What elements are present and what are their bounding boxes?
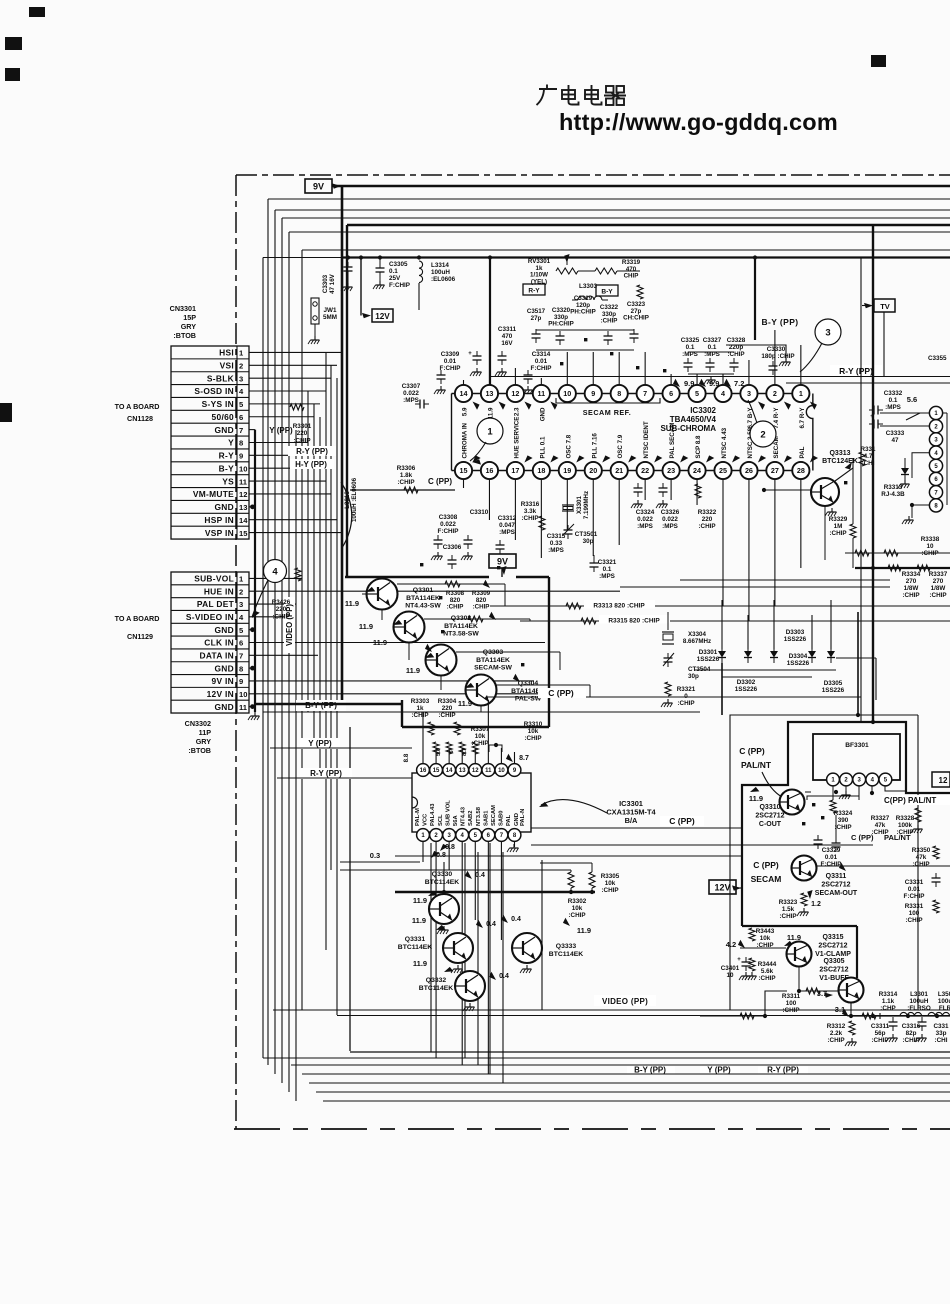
svg-text:30p: 30p: [688, 673, 699, 680]
svg-text:2.2k: 2.2k: [830, 1030, 843, 1037]
svg-text:B-Y (PP): B-Y (PP): [305, 701, 337, 710]
svg-text:R3334: R3334: [902, 571, 921, 578]
svg-text:0.8: 0.8: [445, 844, 455, 851]
svg-text:0.1: 0.1: [603, 566, 612, 573]
svg-text:IC3302: IC3302: [690, 406, 716, 415]
resistor R3426: [295, 568, 301, 581]
svg-text:13: 13: [459, 768, 466, 774]
crystal X3304: [667, 612, 669, 630]
supply box 12V far-right: [932, 772, 950, 787]
svg-text:11: 11: [538, 389, 546, 398]
svg-text:10: 10: [239, 690, 247, 699]
svg-text:10k: 10k: [572, 905, 583, 912]
svg-text:+: +: [737, 957, 741, 963]
svg-text:16V: 16V: [501, 340, 513, 347]
svg-text:VIDEO (PP): VIDEO (PP): [285, 604, 294, 646]
box B thick: [742, 722, 950, 926]
transistor Q3333: [512, 933, 542, 963]
svg-text:VM-MUTE: VM-MUTE: [193, 489, 234, 499]
svg-text:3: 3: [239, 600, 243, 609]
wires CN3301 pin stubs: [249, 351, 343, 353]
svg-text:15: 15: [460, 466, 468, 475]
svg-text:1/8W: 1/8W: [904, 585, 919, 592]
svg-text:R3315 820 :CHIP: R3315 820 :CHIP: [608, 618, 660, 625]
svg-text:100: 100: [909, 910, 920, 917]
bracket SECAM REF: [556, 398, 660, 403]
svg-text:50/60: 50/60: [212, 412, 235, 422]
svg-text:2SC2712: 2SC2712: [821, 882, 850, 889]
transistor Q3331: [443, 933, 473, 963]
svg-text:10: 10: [726, 972, 734, 979]
wire GND vertical (thick): [254, 430, 256, 712]
svg-text:S-YS IN: S-YS IN: [202, 399, 234, 409]
svg-text:CH:CHIP: CH:CHIP: [623, 315, 649, 322]
svg-text:S-VIDEO IN: S-VIDEO IN: [186, 612, 234, 622]
connector CN3302 table: [171, 572, 249, 713]
wires IC3301 top leads: [422, 712, 424, 764]
wire r-y horizontal: [277, 777, 412, 779]
svg-text:2: 2: [760, 429, 765, 440]
svg-text:8.7: 8.7: [462, 748, 468, 756]
svg-text:R3321: R3321: [677, 686, 696, 693]
svg-text:R-Y (PP): R-Y (PP): [839, 366, 873, 376]
svg-text:SCL: SCL: [438, 814, 444, 826]
svg-text:47k: 47k: [916, 854, 927, 861]
svg-text:R3303: R3303: [411, 698, 430, 705]
svg-text:C3401: C3401: [721, 965, 740, 972]
svg-text:C331: C331: [933, 1023, 949, 1030]
svg-text:SECAM-OUT: SECAM-OUT: [815, 890, 858, 897]
svg-text:R3314: R3314: [879, 991, 898, 998]
svg-text:C3314: C3314: [532, 351, 551, 358]
svg-text:C3333: C3333: [886, 430, 905, 437]
wire thick drop bf: [857, 612, 859, 715]
resistor R3321: [665, 682, 671, 696]
svg-text:Y (PP): Y (PP): [707, 1066, 731, 1075]
svg-text:Q3315: Q3315: [822, 934, 843, 941]
svg-text:SAB1: SAB1: [483, 810, 489, 826]
svg-text:0.4: 0.4: [499, 973, 509, 980]
capacitor CT3504: [664, 657, 673, 659]
svg-text:R3313: R3313: [884, 484, 903, 491]
svg-text::MPS: :MPS: [499, 529, 515, 536]
svg-text:7: 7: [239, 426, 243, 435]
svg-text:L3303: L3303: [579, 283, 598, 290]
svg-text:FLR: FLR: [939, 1005, 950, 1012]
svg-text:10: 10: [563, 389, 571, 398]
svg-text:14: 14: [239, 516, 248, 525]
svg-text:15: 15: [239, 529, 248, 538]
svg-text:220: 220: [276, 606, 287, 613]
svg-text:R3301: R3301: [293, 423, 312, 430]
wire right v873 thick: [872, 225, 874, 722]
svg-text:100uH: 100uH: [431, 269, 450, 276]
svg-text::CHIP: :CHIP: [447, 604, 464, 611]
svg-text::CHIP: :CHIP: [827, 1037, 844, 1044]
svg-text:C3324: C3324: [636, 509, 655, 516]
svg-text::CHIP: :CHIP: [758, 975, 775, 982]
svg-text:0.1: 0.1: [389, 268, 398, 275]
svg-text:C3307: C3307: [402, 383, 421, 390]
svg-text:5.9: 5.9: [462, 407, 469, 416]
wire bus bottom b6: [316, 1091, 950, 1093]
svg-text:Q3301: Q3301: [413, 587, 434, 594]
svg-text::CHIP: :CHIP: [829, 530, 846, 537]
border dash-dot top: [236, 174, 950, 176]
svg-text:10k: 10k: [760, 935, 771, 942]
connector CN3301 table: [171, 346, 249, 539]
svg-text:C (PP): C (PP): [851, 833, 874, 842]
svg-text:GND: GND: [514, 813, 520, 826]
svg-text:6: 6: [239, 413, 243, 422]
label R-Y (PP) top: [830, 365, 882, 376]
wire c pp 3301: [531, 827, 742, 829]
wires Q3313: [764, 489, 811, 491]
wire bus left v4: [281, 218, 283, 1083]
svg-text::CHIP: :CHIP: [438, 712, 455, 719]
svg-text:R3329: R3329: [829, 516, 848, 523]
circled 4 pointer: [264, 560, 287, 583]
svg-text:28: 28: [797, 466, 805, 475]
svg-text:0.1: 0.1: [889, 397, 898, 404]
wire bus top 9V (thick): [332, 185, 950, 188]
svg-text:0.022: 0.022: [440, 521, 456, 528]
wire 12V drop: [360, 258, 362, 316]
svg-text:GND: GND: [214, 425, 234, 435]
wire bus left v13: [336, 378, 338, 1015]
svg-text:Q3304: Q3304: [518, 680, 539, 687]
svg-text::CHIP: :CHIP: [397, 479, 414, 486]
svg-text:3: 3: [239, 374, 243, 383]
svg-text:CN3302: CN3302: [185, 719, 211, 728]
svg-text:C (PP): C (PP): [548, 688, 574, 698]
wire y horizontal: [270, 747, 412, 749]
ground below CN3302: [254, 712, 256, 716]
svg-text:Q3332: Q3332: [426, 977, 447, 984]
svg-text:180p :CHIP: 180p :CHIP: [761, 353, 794, 360]
svg-text:C3311: C3311: [498, 326, 517, 333]
svg-text:NT4.43-SW: NT4.43-SW: [405, 603, 441, 610]
diode D3302: [747, 615, 749, 649]
wire r-y pp line: [490, 376, 950, 378]
wedge marks IC3302 pins: [471, 400, 481, 410]
transistor Q3311: [792, 856, 817, 881]
svg-text:F:CHIP: F:CHIP: [821, 861, 842, 868]
svg-text::MPS: :MPS: [885, 404, 901, 411]
svg-text:R3328: R3328: [896, 815, 915, 822]
svg-text:Y: Y: [228, 438, 234, 448]
svg-text:47: 47: [891, 437, 899, 444]
wire y845: [531, 844, 873, 846]
svg-text:PH:CHIP: PH:CHIP: [570, 309, 595, 316]
svg-text:1SS226: 1SS226: [697, 656, 720, 663]
svg-text:BTA114EK: BTA114EK: [406, 595, 440, 602]
wire y1016 left: [700, 1015, 765, 1017]
svg-text:3: 3: [747, 389, 751, 398]
svg-text:11.9: 11.9: [373, 638, 387, 647]
wire bus bottom b3: [291, 1064, 950, 1066]
svg-text:R3305: R3305: [601, 873, 620, 880]
svg-text:F:CHIP: F:CHIP: [440, 365, 461, 372]
svg-text:9: 9: [239, 452, 243, 461]
svg-text:100: 100: [786, 1000, 797, 1007]
svg-text:B/A: B/A: [625, 816, 638, 825]
transistor Q3304: [466, 675, 497, 706]
wire thick y568: [855, 567, 950, 569]
op-amp IC3302 body and pins: [452, 393, 810, 395]
svg-text:D3304: D3304: [789, 653, 808, 660]
svg-text:R3312: R3312: [827, 1023, 846, 1030]
wire bus bottom b2: [263, 1057, 950, 1059]
svg-text:Y (PP): Y (PP): [269, 426, 293, 435]
wire bus bottom video2: [337, 1015, 950, 1017]
svg-text:C3332: C3332: [884, 390, 903, 397]
svg-text:15P: 15P: [183, 313, 196, 322]
svg-text::CHIP: :CHIP: [601, 887, 618, 894]
border dash-dot left: [235, 175, 237, 1129]
wire bus top 4: [282, 217, 950, 219]
diode D3301: [721, 600, 723, 649]
svg-text:R-Y: R-Y: [528, 288, 540, 295]
svg-text:HUE IN: HUE IN: [204, 586, 234, 596]
svg-text:R3350: R3350: [912, 847, 931, 854]
svg-text:C3308: C3308: [439, 514, 458, 521]
svg-text:1/8W: 1/8W: [931, 585, 946, 592]
wire b-y top: [726, 345, 786, 360]
circled 1: [477, 418, 503, 444]
scan blob top-right: [871, 55, 886, 67]
resistor R left: [859, 452, 865, 466]
svg-text:1k: 1k: [416, 705, 424, 712]
svg-text:14: 14: [460, 389, 468, 398]
wire secam out: [816, 863, 950, 865]
svg-text:BF3301: BF3301: [845, 742, 869, 749]
svg-text:0.4: 0.4: [511, 916, 521, 923]
wires IC3301 bottom leads: [422, 841, 424, 862]
svg-text:CN3301: CN3301: [170, 304, 196, 313]
thick frame switch area: [345, 576, 489, 578]
wire bus left v6: [295, 430, 297, 1101]
wire thick v2: [346, 225, 348, 577]
svg-text::CHIP: :CHIP: [471, 740, 488, 747]
svg-text:0.047: 0.047: [499, 522, 515, 529]
svg-text:R3331: R3331: [905, 903, 924, 910]
diode D right: [901, 468, 909, 475]
svg-text:HSP IN: HSP IN: [204, 515, 234, 525]
svg-text:D3302: D3302: [737, 679, 756, 686]
label B-Y (PP) mid: [290, 459, 334, 469]
svg-text::CHIP: :CHIP: [871, 1037, 888, 1044]
wires right column: [880, 412, 929, 414]
svg-text:PAL: PAL: [506, 814, 512, 826]
svg-text:C3327: C3327: [703, 337, 722, 344]
wire 820 line B: [520, 620, 950, 622]
label R-Y (PP) left: [300, 768, 352, 779]
svg-text:220: 220: [442, 705, 453, 712]
capacitor C3305: [376, 267, 385, 269]
svg-text:PAL-M: PAL-M: [415, 808, 421, 826]
svg-text:11: 11: [239, 477, 248, 486]
svg-text:TO A BOARD: TO A BOARD: [115, 614, 160, 623]
svg-text:10: 10: [498, 768, 505, 774]
resistor R3305: [589, 872, 595, 888]
svg-text:11.9: 11.9: [345, 599, 359, 608]
svg-text:270: 270: [906, 578, 917, 585]
resistor R3302: [568, 872, 574, 888]
svg-text:B-Y (PP): B-Y (PP): [761, 317, 798, 327]
svg-text:10k: 10k: [528, 728, 539, 735]
svg-text:NTSC 4.43: NTSC 4.43: [721, 427, 728, 458]
wire right v861: [860, 258, 862, 723]
svg-text:C3326: C3326: [661, 509, 680, 516]
svg-text:13: 13: [485, 389, 493, 398]
svg-text:0.022: 0.022: [637, 516, 653, 523]
svg-text:VSI: VSI: [220, 360, 234, 370]
svg-text:0.01: 0.01: [825, 854, 838, 861]
svg-text:1.2: 1.2: [811, 901, 821, 908]
svg-text:5.6: 5.6: [436, 747, 442, 756]
svg-text:R3323: R3323: [779, 899, 798, 906]
svg-text:HUE SERVICE: HUE SERVICE: [513, 417, 520, 459]
svg-text:Q3313: Q3313: [829, 450, 850, 457]
svg-text::CHIP: :CHIP: [568, 912, 585, 919]
wire bus left v9: [313, 404, 315, 748]
svg-text:1M: 1M: [834, 523, 843, 530]
svg-text:SAB0: SAB0: [499, 811, 505, 826]
wire bus top 8 supply rail: [263, 257, 348, 259]
label Y (PP) bottom: [700, 1067, 740, 1074]
corner joins bottom-left: [262, 1057, 264, 1059]
svg-text:9V IN: 9V IN: [212, 676, 234, 686]
wire bus left v12: [330, 365, 332, 870]
svg-text:CN1129: CN1129: [127, 632, 153, 641]
svg-text:CT3501: CT3501: [575, 531, 598, 538]
svg-text::MPS: :MPS: [637, 523, 653, 530]
svg-text:RJ-4.3B: RJ-4.3B: [881, 491, 905, 498]
svg-text:0.01: 0.01: [444, 358, 457, 365]
svg-text:0.022: 0.022: [662, 516, 678, 523]
svg-text:27p: 27p: [531, 315, 542, 322]
svg-text:TBA4650/V4: TBA4650/V4: [670, 415, 717, 424]
svg-text:GND: GND: [539, 407, 546, 421]
svg-text:C3311: C3311: [871, 1023, 890, 1030]
svg-text:82p: 82p: [906, 1030, 917, 1037]
svg-text:PAL/NT: PAL/NT: [884, 833, 911, 842]
svg-text:9: 9: [591, 389, 595, 398]
svg-text:390: 390: [838, 817, 849, 824]
op-amp right IC pin column: [929, 406, 942, 419]
wires q cluster horiz: [340, 869, 571, 871]
svg-text:GRY: GRY: [196, 737, 212, 746]
junction dots supply rail: [346, 255, 350, 259]
svg-text:R-Y (PP): R-Y (PP): [296, 447, 328, 456]
svg-text:2: 2: [239, 361, 243, 370]
svg-text::MPS: :MPS: [599, 573, 615, 580]
svg-text:470: 470: [502, 333, 513, 340]
svg-text:C3312: C3312: [498, 515, 517, 522]
svg-text:L350: L350: [938, 991, 950, 998]
svg-text::CHIP: :CHIP: [912, 861, 929, 868]
svg-text::CHIP: :CHIP: [473, 604, 490, 611]
scan blob left 3: [0, 403, 12, 422]
wire bus left v5: [288, 232, 290, 1092]
svg-text:R3310: R3310: [524, 721, 543, 728]
svg-text:1.5k: 1.5k: [782, 906, 795, 913]
svg-text:C3305: C3305: [389, 261, 408, 268]
wire bus left v8: [307, 391, 309, 712]
svg-text:0.022: 0.022: [403, 390, 419, 397]
op-amp BF3301 body: [813, 734, 900, 780]
svg-text:SECAM: SECAM: [491, 805, 497, 826]
wires top caps rails: [536, 329, 634, 331]
svg-text:CHIP: CHIP: [624, 273, 639, 280]
wires BF3301 pins: [845, 786, 847, 792]
svg-text:H-Y (PP): H-Y (PP): [295, 460, 327, 469]
svg-text:2SC2712: 2SC2712: [755, 813, 784, 820]
svg-text:CLK IN: CLK IN: [204, 638, 234, 648]
wire q3313 down: [824, 506, 826, 560]
svg-text:11: 11: [485, 768, 492, 774]
svg-text:JW1: JW1: [324, 307, 337, 314]
svg-text:5.6k: 5.6k: [761, 968, 774, 975]
wire y580: [680, 579, 890, 581]
wire 820 line A: [490, 605, 950, 607]
svg-text:2SC2712: 2SC2712: [818, 943, 847, 950]
transistor Q3310: [780, 790, 805, 815]
svg-text:VSP IN: VSP IN: [205, 528, 234, 538]
svg-text:C3325: C3325: [681, 337, 700, 344]
svg-text:R3322: R3322: [698, 509, 717, 516]
wire v1 chain: [798, 967, 800, 991]
svg-text:SECAM REF.: SECAM REF.: [583, 408, 632, 417]
svg-text:S-OSD IN: S-OSD IN: [194, 386, 234, 396]
svg-text:R3316: R3316: [521, 501, 540, 508]
svg-text:BTC114EK: BTC114EK: [549, 951, 583, 958]
capacitor C3303: [344, 266, 353, 268]
svg-text:2.3: 2.3: [513, 407, 520, 416]
svg-text:V1-BUFF: V1-BUFF: [819, 975, 849, 982]
svg-text:Q3310: Q3310: [759, 804, 780, 811]
svg-text:BTA114EK: BTA114EK: [476, 657, 510, 664]
svg-text:7.4 R-Y: 7.4 R-Y: [773, 407, 780, 429]
wire bus left v7: [301, 250, 303, 1010]
diode D3305: [830, 600, 832, 649]
svg-text::CHIP: :CHIP: [698, 523, 715, 530]
circled 3: [815, 319, 841, 345]
transistor Q3330: [429, 894, 459, 924]
svg-text:C3329: C3329: [822, 847, 841, 854]
scan blob left 2: [5, 68, 20, 81]
svg-text:BTC114EK: BTC114EK: [419, 985, 453, 992]
wedges switch collectors: [482, 580, 492, 590]
svg-text:2SC2712: 2SC2712: [819, 967, 848, 974]
svg-text:X3301: X3301: [576, 496, 583, 514]
svg-text:100uH: 100uH: [910, 998, 929, 1005]
svg-text:0.4: 0.4: [486, 921, 496, 928]
svg-text:+: +: [468, 351, 472, 357]
diode D3303: [773, 600, 775, 649]
svg-text:6.7 R-Y: 6.7 R-Y: [799, 407, 806, 429]
inductor L3314: [419, 261, 423, 283]
wire y587: [620, 586, 890, 588]
svg-text::CHIP: :CHIP: [677, 700, 694, 707]
svg-text:5MM: 5MM: [323, 314, 337, 321]
svg-text:SECAM-SW: SECAM-SW: [474, 665, 512, 672]
svg-text:L3301: L3301: [910, 991, 928, 998]
svg-text:D3301: D3301: [699, 649, 718, 656]
svg-text:7: 7: [239, 652, 243, 661]
wire b-y horizontal: [263, 711, 700, 713]
